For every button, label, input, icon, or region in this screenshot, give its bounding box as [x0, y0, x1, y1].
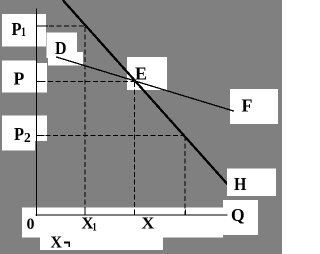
svg-text:X: X	[51, 233, 63, 252]
svg-text:H: H	[234, 174, 246, 194]
svg-text:0: 0	[27, 216, 35, 233]
svg-text:Q: Q	[231, 205, 245, 225]
svg-text:X: X	[142, 214, 156, 233]
svg-text:F: F	[242, 96, 253, 116]
svg-text:E: E	[135, 64, 147, 84]
svg-text:P: P	[14, 69, 25, 89]
svg-text:D: D	[55, 38, 67, 58]
